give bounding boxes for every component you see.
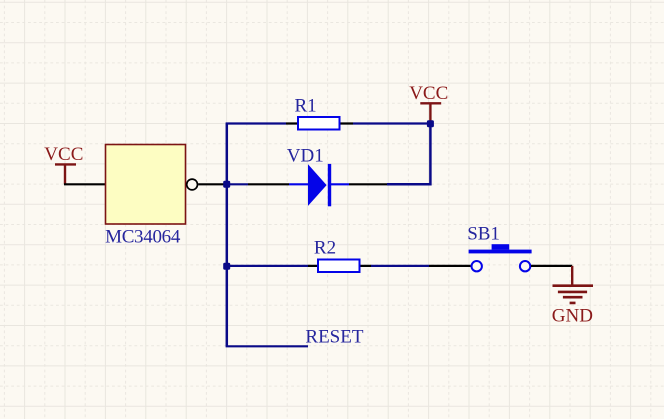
svg-text:RESET: RESET [305, 327, 363, 348]
svg-text:VCC: VCC [409, 83, 448, 104]
junction node (bus / R2 row) [223, 263, 230, 270]
pushbutton SB1 symbol [469, 244, 532, 271]
inversion bubble on IC output pin [187, 179, 198, 190]
wire: R2 right pin to SB1 left pin [371, 265, 429, 267]
diode VD1 cathode pin (black) [349, 183, 387, 185]
wire: vertical bus (node A column) [226, 124, 229, 347]
IC MC34064 body [106, 145, 186, 225]
wire: IC output pin to node A [198, 183, 227, 185]
pushbutton SB1 right pin wire (black) [531, 265, 572, 267]
label GND [552, 306, 593, 327]
resistor R2 body [318, 260, 360, 273]
wire: right vertical (VCC junction down to diode row) [387, 124, 430, 185]
wire: bus bottom corner to RESET [226, 345, 308, 347]
resistor R1 body [298, 117, 340, 130]
label R1 [295, 96, 317, 117]
svg-text:MC34064: MC34064 [105, 226, 181, 247]
ground GND symbol [553, 266, 594, 303]
wire: bus junction to R2 left pin [226, 265, 308, 267]
svg-text:GND: GND [552, 306, 593, 327]
wire: VCC to IC pin (input pin) [64, 183, 106, 185]
net label RESET [305, 327, 363, 348]
diode VD1 anode pin (black) [248, 183, 289, 185]
svg-text:R2: R2 [314, 237, 336, 258]
power port VCC (top right) [409, 83, 448, 124]
junction node B (VCC / R1 / right vertical) [427, 120, 434, 127]
svg-text:SB1: SB1 [467, 224, 500, 245]
svg-text:VD1: VD1 [287, 145, 324, 166]
label MC34064 [105, 226, 181, 247]
label R2 [314, 237, 336, 258]
diode VD1 symbol [289, 164, 349, 206]
power port VCC (left) [44, 144, 83, 184]
resistor R1 pins [286, 122, 353, 124]
junction node A (bus / diode row) [223, 181, 230, 188]
label SB1 [467, 224, 500, 245]
wire: bus corner to R1 left pin [226, 122, 286, 124]
resistor R2 pins [308, 265, 371, 267]
wire: R1 right pin to VCC junction [353, 122, 430, 124]
label VD1 [287, 145, 324, 166]
svg-text:VCC: VCC [44, 144, 83, 165]
svg-text:R1: R1 [295, 96, 317, 117]
wire: node A to diode anode [227, 183, 248, 185]
pushbutton SB1 left pin wire (black) [429, 265, 471, 267]
